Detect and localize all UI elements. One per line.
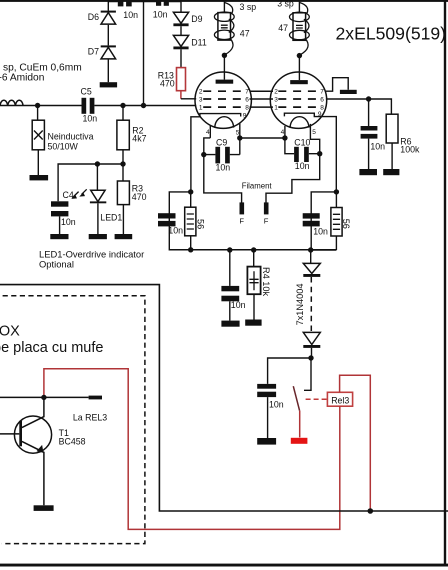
svg-text:10n: 10n: [269, 399, 284, 409]
border frame top: [0, 0, 448, 2]
border frame right: [444, 0, 446, 566]
svg-text:C10: C10: [294, 137, 310, 147]
resistor R2 4k7: [122, 106, 124, 121]
terminal bar black: [257, 438, 276, 445]
svg-text:4: 4: [281, 129, 285, 136]
ground: [50, 234, 68, 239]
svg-text:Neinductiva: Neinductiva: [48, 131, 94, 141]
svg-text:10n: 10n: [168, 226, 183, 236]
diode D6: [107, 2, 109, 11]
wire dashed chain: [310, 277, 312, 332]
wire to Neinductiva: [37, 106, 39, 121]
wire: [107, 25, 109, 46]
svg-text:5: 5: [236, 129, 240, 136]
dashed box BOX: [2, 296, 145, 544]
ground: [383, 169, 399, 175]
resistor R4 10k: [253, 250, 255, 267]
pin 5 stub V2: [266, 124, 320, 204]
svg-text:R4 10k: R4 10k: [261, 267, 271, 297]
svg-text:Rel3: Rel3: [331, 395, 349, 405]
ground: [245, 320, 261, 326]
node cathode V2 junction: [334, 189, 339, 194]
svg-text:pe placa cu mufe: pe placa cu mufe: [0, 340, 103, 356]
wire bottom bus: [169, 249, 336, 251]
svg-text:D7: D7: [88, 47, 99, 57]
diode chain 7x1N4004 top diode: [310, 250, 312, 263]
wire: [37, 150, 39, 175]
ground: [30, 175, 49, 180]
svg-text:470: 470: [160, 79, 175, 89]
wire pin7 V2 to bar: [325, 78, 348, 92]
wire collector node: [0, 396, 89, 398]
wire input bus: [0, 105, 196, 107]
node junction on bus: [368, 508, 374, 514]
svg-text:4k7: 4k7: [132, 134, 146, 144]
node relay junction: [308, 355, 313, 360]
terminal stub La REL3: [89, 396, 102, 400]
svg-text:10n: 10n: [83, 114, 98, 124]
wire pin5L to pin4R: [240, 137, 285, 139]
resistor R3 470: [117, 181, 129, 205]
resistor R13 470 (red): [177, 68, 186, 91]
pin 4 stub V1: [209, 125, 211, 138]
ground: [359, 169, 377, 175]
pin 4 stub V2: [284, 126, 286, 138]
svg-text:C5: C5: [81, 87, 92, 97]
svg-text:10n: 10n: [370, 141, 385, 151]
LED LED1: [96, 164, 98, 190]
grid rows V2: [278, 90, 318, 92]
switch arm: [293, 386, 299, 411]
diode D11: [173, 35, 188, 46]
ground: [115, 234, 133, 239]
svg-text:BC458: BC458: [59, 436, 86, 446]
node junction below suppressor 1: [222, 53, 227, 58]
svg-text:10n: 10n: [61, 217, 76, 227]
wire loop left network: [169, 192, 190, 250]
svg-text:10n: 10n: [153, 9, 168, 19]
svg-text:9: 9: [243, 112, 247, 119]
terminal F left: [240, 202, 245, 214]
svg-text:D11: D11: [191, 37, 207, 47]
svg-text:Filament: Filament: [242, 181, 273, 190]
grid rows V1: [203, 90, 243, 92]
wire to relay cap: [268, 358, 311, 384]
diode chain bottom diode: [303, 332, 320, 344]
cathode V1: [191, 114, 241, 192]
svg-text:10n: 10n: [295, 161, 310, 171]
capacitor 10n at R6: [368, 99, 370, 126]
svg-text:3 sp: 3 sp: [277, 0, 294, 8]
ground: [221, 321, 239, 327]
svg-text:50/10W: 50/10W: [48, 142, 79, 152]
svg-text:-6 Amidon: -6 Amidon: [0, 72, 44, 83]
svg-text:3: 3: [199, 96, 203, 103]
svg-text:3: 3: [274, 96, 278, 103]
resistor 56 (right): [335, 192, 337, 250]
svg-text:6: 6: [245, 96, 249, 103]
svg-text:LED1: LED1: [100, 213, 122, 223]
wire: [180, 49, 182, 67]
svg-text:56: 56: [195, 219, 205, 229]
node D junction: [120, 161, 125, 166]
capacitor 10n (left 56 net): [158, 213, 176, 218]
svg-text:5: 5: [312, 129, 316, 136]
node C junction: [141, 103, 146, 108]
anode plate V2: [290, 80, 308, 84]
svg-text:10n: 10n: [231, 300, 246, 310]
svg-text:47: 47: [278, 23, 288, 33]
svg-text:2: 2: [274, 89, 278, 96]
bar terminal g3: [340, 90, 357, 94]
relay Rel3 box: [327, 392, 352, 406]
ground: [100, 82, 117, 87]
coil L input top-left: [0, 100, 23, 105]
svg-text:7x1N4004: 7x1N4004: [295, 284, 305, 326]
node junction below suppressor 2: [297, 53, 302, 58]
capacitor 10n top1: [108, 1, 143, 3]
dashed relay link: [306, 398, 328, 400]
wire loop right network: [311, 192, 336, 250]
anode plate V1: [216, 80, 234, 84]
svg-text:100k: 100k: [400, 145, 420, 155]
wire pin6 V2 to R6: [326, 99, 392, 114]
svg-text:7: 7: [320, 89, 324, 96]
svg-text:10n: 10n: [123, 10, 138, 20]
wire to LED branch: [58, 164, 123, 201]
capacitor 10n mid: [229, 250, 231, 286]
svg-text:F: F: [239, 217, 244, 226]
tube V2 EL509 (right): [270, 72, 326, 128]
terminal bar red: [291, 438, 308, 444]
svg-text:7: 7: [245, 89, 249, 96]
svg-text:3 sp: 3 sp: [240, 2, 257, 12]
switch fixed contact: [304, 358, 311, 390]
suppressor L2/R 3sp 47 (right): [298, 0, 300, 13]
svg-text:F: F: [264, 217, 269, 226]
svg-text:6: 6: [320, 96, 324, 103]
capacitor 10n relay: [257, 384, 276, 389]
transistor T1 BC458: [14, 416, 51, 453]
wire red Rel3 top to bus: [340, 375, 371, 511]
svg-text:Optional: Optional: [39, 259, 74, 270]
svg-text:2xEL509(519): 2xEL509(519): [336, 24, 447, 44]
resistor 56 (left): [190, 192, 192, 250]
terminal F right: [264, 202, 269, 214]
node B junction: [120, 103, 125, 108]
wire pin4 V1 to F: [204, 138, 242, 204]
wire black L bus around box: [0, 285, 448, 511]
svg-text:2: 2: [199, 89, 203, 96]
svg-text:1: 1: [274, 105, 278, 112]
bump V1: [215, 117, 234, 128]
resistor Neinductiva 50/10W: [32, 120, 44, 150]
svg-text:10n: 10n: [216, 162, 231, 172]
bump V2: [290, 117, 309, 128]
svg-text:C9: C9: [216, 137, 227, 147]
wire center vertical: [143, 2, 145, 106]
node A junction: [35, 103, 40, 108]
svg-text:D6: D6: [88, 12, 99, 22]
wire red stub: [180, 91, 182, 99]
capacitor 10n top2: [144, 1, 182, 3]
svg-text:56: 56: [341, 219, 351, 229]
svg-text:La REL3: La REL3: [73, 412, 107, 422]
svg-text:470: 470: [132, 192, 147, 202]
border frame bottom: [0, 564, 448, 567]
svg-text:10n: 10n: [313, 227, 328, 237]
svg-text:4: 4: [206, 129, 210, 136]
svg-text:1: 1: [199, 105, 203, 112]
svg-text:8: 8: [245, 105, 249, 112]
diode D7: [101, 45, 116, 47]
cathode V2: [284, 113, 336, 192]
node cathode V1 junction: [188, 189, 193, 194]
wire: [180, 26, 182, 35]
wire tube interconnects: [250, 91, 274, 107]
pin 5 stub V1: [239, 123, 241, 154]
suppressor L1/R 3sp 47 (left): [223, 0, 225, 13]
capacitor 10n (right 56 net): [303, 213, 320, 218]
ground: [34, 505, 54, 511]
svg-text:D9: D9: [191, 14, 202, 24]
node E junction: [95, 161, 100, 166]
ground: [89, 234, 107, 239]
resistor R6 100k: [386, 114, 398, 143]
tube V1 EL509 (left): [195, 72, 251, 128]
wire red Rel3 bottom long path to T1 collector: [44, 369, 340, 530]
wire red below arm: [299, 411, 301, 438]
svg-text:47: 47: [240, 28, 250, 38]
svg-text:OX: OX: [0, 324, 20, 340]
diode D9: [180, 0, 182, 12]
wire to pin 3: [181, 98, 196, 100]
